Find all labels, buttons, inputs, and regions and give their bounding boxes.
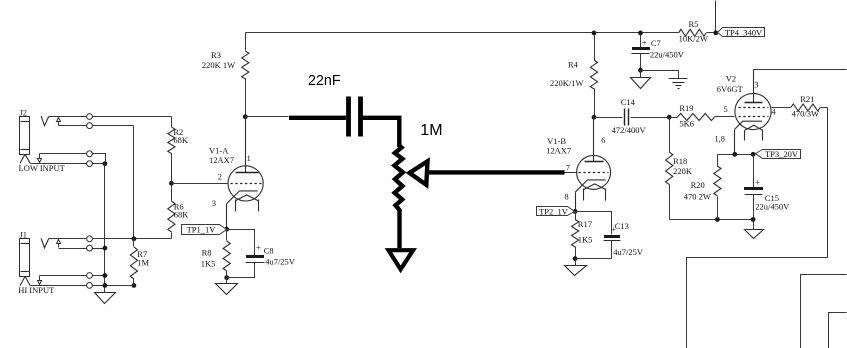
svg-text:22u/450V: 22u/450V	[650, 49, 685, 59]
svg-text:12AX7: 12AX7	[209, 155, 234, 165]
svg-text:R8: R8	[202, 248, 212, 258]
earth ground symbol	[669, 79, 688, 89]
capacitor C13	[576, 221, 644, 259]
svg-text:1,8: 1,8	[715, 135, 725, 144]
wire R8 bottom to ground	[226, 278, 228, 284]
annotation bold wire to 22nF cap	[289, 116, 346, 120]
wire V2 plate to right edge	[754, 69, 847, 71]
node R18 top junction	[667, 115, 672, 120]
jack J1 body	[20, 230, 31, 286]
resistor R4	[550, 33, 598, 118]
svg-text:+: +	[256, 242, 261, 252]
ground V1-B cathode	[565, 266, 587, 276]
wire TP4 node up to top edge	[715, 1, 717, 33]
svg-text:TP3_20V: TP3_20V	[765, 149, 799, 159]
test point TP3_20V	[756, 149, 801, 159]
svg-text:C8: C8	[264, 246, 274, 256]
capacitor C15	[744, 155, 790, 220]
node V1-A plate junction	[243, 114, 248, 119]
node R4 top	[592, 31, 597, 36]
wire top rail B+	[246, 32, 679, 34]
node C7 bottom junction	[638, 68, 643, 73]
wire R5 right to TP4 node	[707, 32, 716, 34]
svg-text:4u7/25V: 4u7/25V	[613, 247, 644, 257]
wire R17 bottom to ground	[575, 259, 577, 266]
svg-text:TP4_340V: TP4_340V	[725, 28, 763, 38]
svg-text:R18: R18	[673, 156, 687, 166]
svg-text:22nF: 22nF	[308, 73, 341, 89]
jack J1 contact pins	[87, 236, 93, 288]
node C7 top	[638, 31, 643, 36]
svg-text:3: 3	[754, 80, 758, 89]
node R17 bottom junction	[573, 256, 578, 261]
node V1-A grid junction	[169, 181, 174, 186]
wire C15 node to ground	[753, 220, 755, 230]
svg-text:4u7/25V: 4u7/25V	[265, 256, 296, 266]
svg-text:LOW INPUT: LOW INPUT	[19, 163, 66, 173]
jack J2 contact pins	[87, 114, 93, 167]
svg-text:1: 1	[247, 154, 251, 163]
svg-text:V2: V2	[726, 73, 736, 83]
wire plate node to coupling cap	[246, 116, 289, 118]
test point TP1_1V	[182, 225, 227, 235]
test point TP4_340V	[718, 28, 765, 38]
svg-text:R5: R5	[689, 19, 699, 29]
wire C7 node to earth ground	[641, 71, 679, 79]
svg-text:+: +	[642, 37, 647, 47]
wire ground bus	[104, 164, 106, 293]
ground input bus	[95, 293, 116, 304]
svg-text:220K 1W: 220K 1W	[202, 60, 235, 70]
svg-text:68K: 68K	[173, 135, 189, 145]
wire J2 sleeve lower line	[31, 163, 105, 165]
svg-text:5: 5	[724, 105, 728, 114]
svg-text:22u/450V: 22u/450V	[755, 201, 790, 211]
wire cathode node to C13	[576, 212, 612, 235]
svg-text:3: 3	[212, 199, 216, 208]
test point TP2_1V	[537, 207, 575, 217]
svg-text:+: +	[755, 177, 760, 187]
annotation bold ground	[389, 250, 414, 269]
wire cathode node to C8	[227, 230, 255, 256]
triode V1-A	[209, 117, 263, 230]
svg-text:470 2W: 470 2W	[684, 191, 711, 201]
svg-text:6V6GT: 6V6GT	[717, 84, 744, 94]
resistor R6	[168, 184, 189, 239]
svg-text:12AX7: 12AX7	[546, 145, 571, 155]
wire V2 cathode row	[718, 154, 754, 156]
svg-text:R19: R19	[679, 103, 693, 113]
svg-text:472/400V: 472/400V	[612, 125, 647, 135]
wire J2 ring bus down to HI tip node	[133, 126, 135, 239]
node V2 cathode junction	[732, 152, 737, 157]
wire wiper to V1-B grid pin7	[565, 172, 578, 174]
node R20 bottom	[715, 217, 720, 222]
svg-text:220K: 220K	[673, 166, 693, 176]
svg-text:1K5: 1K5	[201, 258, 216, 268]
jack J1 tip contact V	[41, 238, 49, 248]
node R7 bottom junction	[132, 283, 137, 288]
svg-text:C14: C14	[621, 97, 636, 107]
svg-text:TP2_1V: TP2_1V	[539, 207, 569, 217]
annotation bold wire pot to ground	[397, 209, 401, 248]
node V1-B plate junction	[592, 115, 597, 120]
resistor R21	[791, 94, 828, 119]
annotation potentiometer 1M	[394, 122, 442, 210]
wire J1 sleeve upper line	[40, 275, 105, 277]
resistor R17	[572, 212, 593, 259]
svg-text:HI INPUT: HI INPUT	[18, 285, 55, 295]
wire grid node to V1-A pin2	[172, 183, 229, 185]
jack J2 sleeve switch arrow	[38, 154, 42, 163]
resistor R20	[684, 155, 721, 220]
svg-text:220K/1W: 220K/1W	[550, 78, 584, 88]
jack J2 tip switch arrow	[57, 118, 61, 126]
svg-text:1K5: 1K5	[578, 234, 593, 244]
resistor R18	[666, 118, 693, 220]
wire J1 tip line	[49, 238, 172, 240]
resistor R3	[202, 33, 249, 117]
svg-text:68K: 68K	[174, 210, 190, 220]
capacitor C7	[632, 33, 685, 71]
ground V2 cathode	[745, 230, 764, 239]
svg-text:6: 6	[601, 136, 605, 145]
svg-text:R21: R21	[800, 94, 814, 104]
resistor R2	[168, 117, 189, 184]
svg-text:R3: R3	[211, 50, 221, 60]
svg-text:C13: C13	[615, 221, 629, 231]
svg-text:R20: R20	[691, 180, 705, 190]
wire J1 sleeve lower line	[31, 285, 134, 287]
wire bottom rail R18 R20 C15	[670, 219, 754, 221]
node J1 tip / R7 junction	[132, 236, 137, 241]
node J2 sleeve junction	[103, 161, 108, 166]
resistor R7	[130, 239, 149, 286]
svg-text:R4: R4	[568, 59, 579, 69]
pentode V2	[715, 70, 777, 155]
svg-text:J1: J1	[20, 230, 28, 240]
wire V2 g2 to R21	[772, 107, 791, 109]
annotation bold wire 22nF to pot	[363, 118, 400, 147]
node R8 bottom junction	[224, 275, 229, 280]
wire C7 bottom to ground	[640, 71, 642, 78]
svg-text:1M: 1M	[137, 258, 149, 268]
svg-text:2: 2	[218, 173, 222, 182]
node C15 bottom	[751, 217, 756, 222]
svg-text:10K/2W: 10K/2W	[679, 34, 708, 44]
jack J1 sleeve switch arrow	[38, 276, 42, 285]
capacitor C8	[227, 242, 296, 277]
resistor R8	[201, 230, 231, 278]
node V1-A cathode junction	[224, 227, 229, 232]
svg-text:7: 7	[566, 163, 570, 172]
wire R21 down and across to bottom	[687, 108, 828, 348]
node TP4 junction	[713, 30, 718, 35]
svg-text:8: 8	[565, 193, 569, 202]
jack J2 body	[20, 107, 31, 163]
annotation capacitor 22nF	[308, 73, 361, 137]
wire J2 tip line	[49, 116, 172, 118]
ground V1-A cathode	[216, 284, 238, 295]
resistor R19	[670, 103, 735, 129]
wire next stage inner corner	[829, 313, 847, 348]
node V1-B cathode junction	[573, 209, 578, 214]
jack J1 tip switch arrow	[57, 240, 61, 248]
jack J2 tip contact V	[41, 116, 49, 126]
node J1 sleeve lower junction	[103, 283, 108, 288]
capacitor C14	[595, 97, 670, 135]
svg-text:R17: R17	[578, 219, 592, 229]
node J1 sleeve upper junction	[103, 273, 108, 278]
svg-text:470/3W: 470/3W	[792, 108, 819, 118]
svg-text:TP1_1V: TP1_1V	[187, 225, 217, 235]
wire J2 sleeve upper line	[40, 154, 106, 164]
node TP3 junction	[751, 152, 756, 157]
triode V1-B	[546, 118, 611, 212]
wire J1 ring line	[59, 248, 105, 250]
node J1 ring junction	[103, 246, 108, 251]
wire J2 ring line	[59, 125, 134, 127]
svg-text:5K6: 5K6	[679, 119, 694, 129]
ground C7 triangle	[631, 78, 651, 89]
annotation pot wiper arrow	[410, 161, 578, 185]
svg-text:C7: C7	[651, 38, 661, 48]
svg-text:1M: 1M	[420, 122, 442, 139]
svg-text:J2: J2	[20, 107, 28, 117]
wire next stage outer corner	[801, 275, 847, 348]
resistor R5	[679, 19, 708, 43]
